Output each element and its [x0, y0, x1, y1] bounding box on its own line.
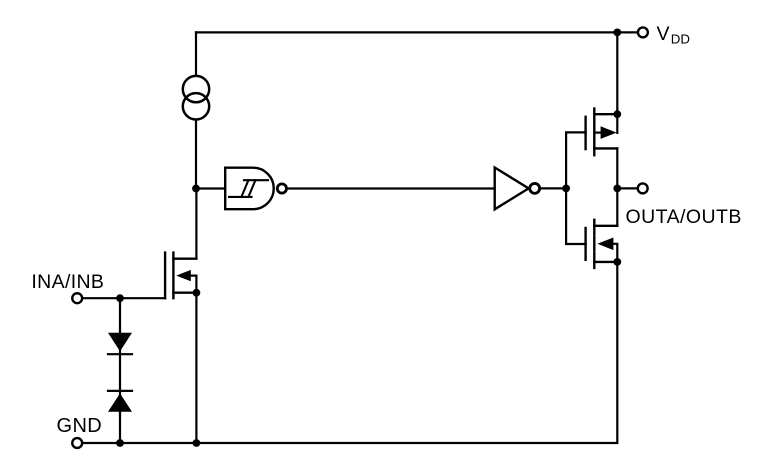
svg-text:GND: GND [57, 415, 103, 437]
transistor Q2 (output PMOS) [586, 109, 618, 156]
wire inverter output to gate bus [540, 187, 567, 189]
wire node A to Q1 drain [195, 189, 197, 259]
diode D1 [108, 333, 132, 354]
diode D2 [108, 391, 132, 412]
wire top rail to current source [195, 32, 197, 75]
wire node A to Schmitt input [196, 187, 225, 189]
terminal INA/INB [72, 293, 82, 303]
wire between diodes [119, 354, 121, 391]
wire Q1 source to bottom rail [195, 293, 197, 443]
wire VDD top rail [196, 31, 638, 33]
junction dot diode chain at bottom rail [116, 439, 124, 447]
svg-text:OUTA/OUTB: OUTA/OUTB [626, 206, 742, 228]
inverter output bubble [530, 183, 540, 193]
wire VDD rail to PMOS source [616, 32, 618, 114]
Schmitt trigger gate U1 [225, 168, 274, 210]
wire input to Q1 gate [83, 297, 166, 299]
inverter U2 [495, 168, 529, 210]
wire diode D2 to bottom rail [119, 412, 121, 443]
terminal GND [72, 438, 82, 448]
terminal OUTA/OUTB [638, 183, 648, 193]
terminal VDD [638, 27, 648, 37]
wire gate bus to Q2 and Q3 gates [566, 132, 586, 244]
wire Schmitt output to inverter input [287, 187, 495, 189]
junction dot input / diode chain [116, 294, 124, 302]
wire Q2 drain to output node to Q3 drain [616, 148, 618, 225]
svg-text:INA/INB: INA/INB [31, 271, 104, 293]
junction dot VDD rail / PMOS source [613, 29, 621, 37]
junction dot Q2 source stub [613, 110, 621, 118]
junction dot Q1 source/body [193, 289, 201, 297]
wire diode chain upper [119, 298, 121, 333]
junction dot Q1 source at bottom rail [193, 439, 201, 447]
transistor Q3 (output NMOS) [586, 220, 618, 268]
junction dot gate bus [562, 185, 570, 193]
wire bottom rail and right riser to Q3 source [83, 262, 618, 443]
junction dot output node [613, 185, 621, 193]
current source I1 [183, 76, 209, 120]
junction dot Q3 source/body [613, 258, 621, 266]
label VDD [657, 23, 691, 46]
transistor Q1 (input clamp NMOS) [165, 253, 196, 299]
node A junction dot [192, 185, 200, 193]
svg-text:DD: DD [671, 32, 690, 47]
Schmitt output bubble [277, 184, 286, 193]
wire current source to node A [195, 120, 197, 188]
wire output node to terminal [617, 187, 637, 189]
svg-text:V: V [657, 23, 670, 45]
